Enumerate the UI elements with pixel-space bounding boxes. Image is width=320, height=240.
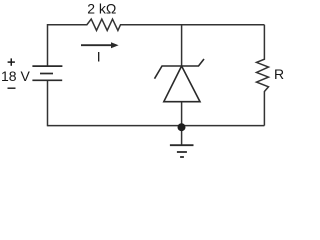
svg-text:2 kΩ: 2 kΩ: [87, 1, 116, 17]
svg-text:18 V: 18 V: [1, 68, 30, 84]
svg-text:R: R: [274, 66, 284, 82]
svg-text:I: I: [97, 48, 101, 64]
